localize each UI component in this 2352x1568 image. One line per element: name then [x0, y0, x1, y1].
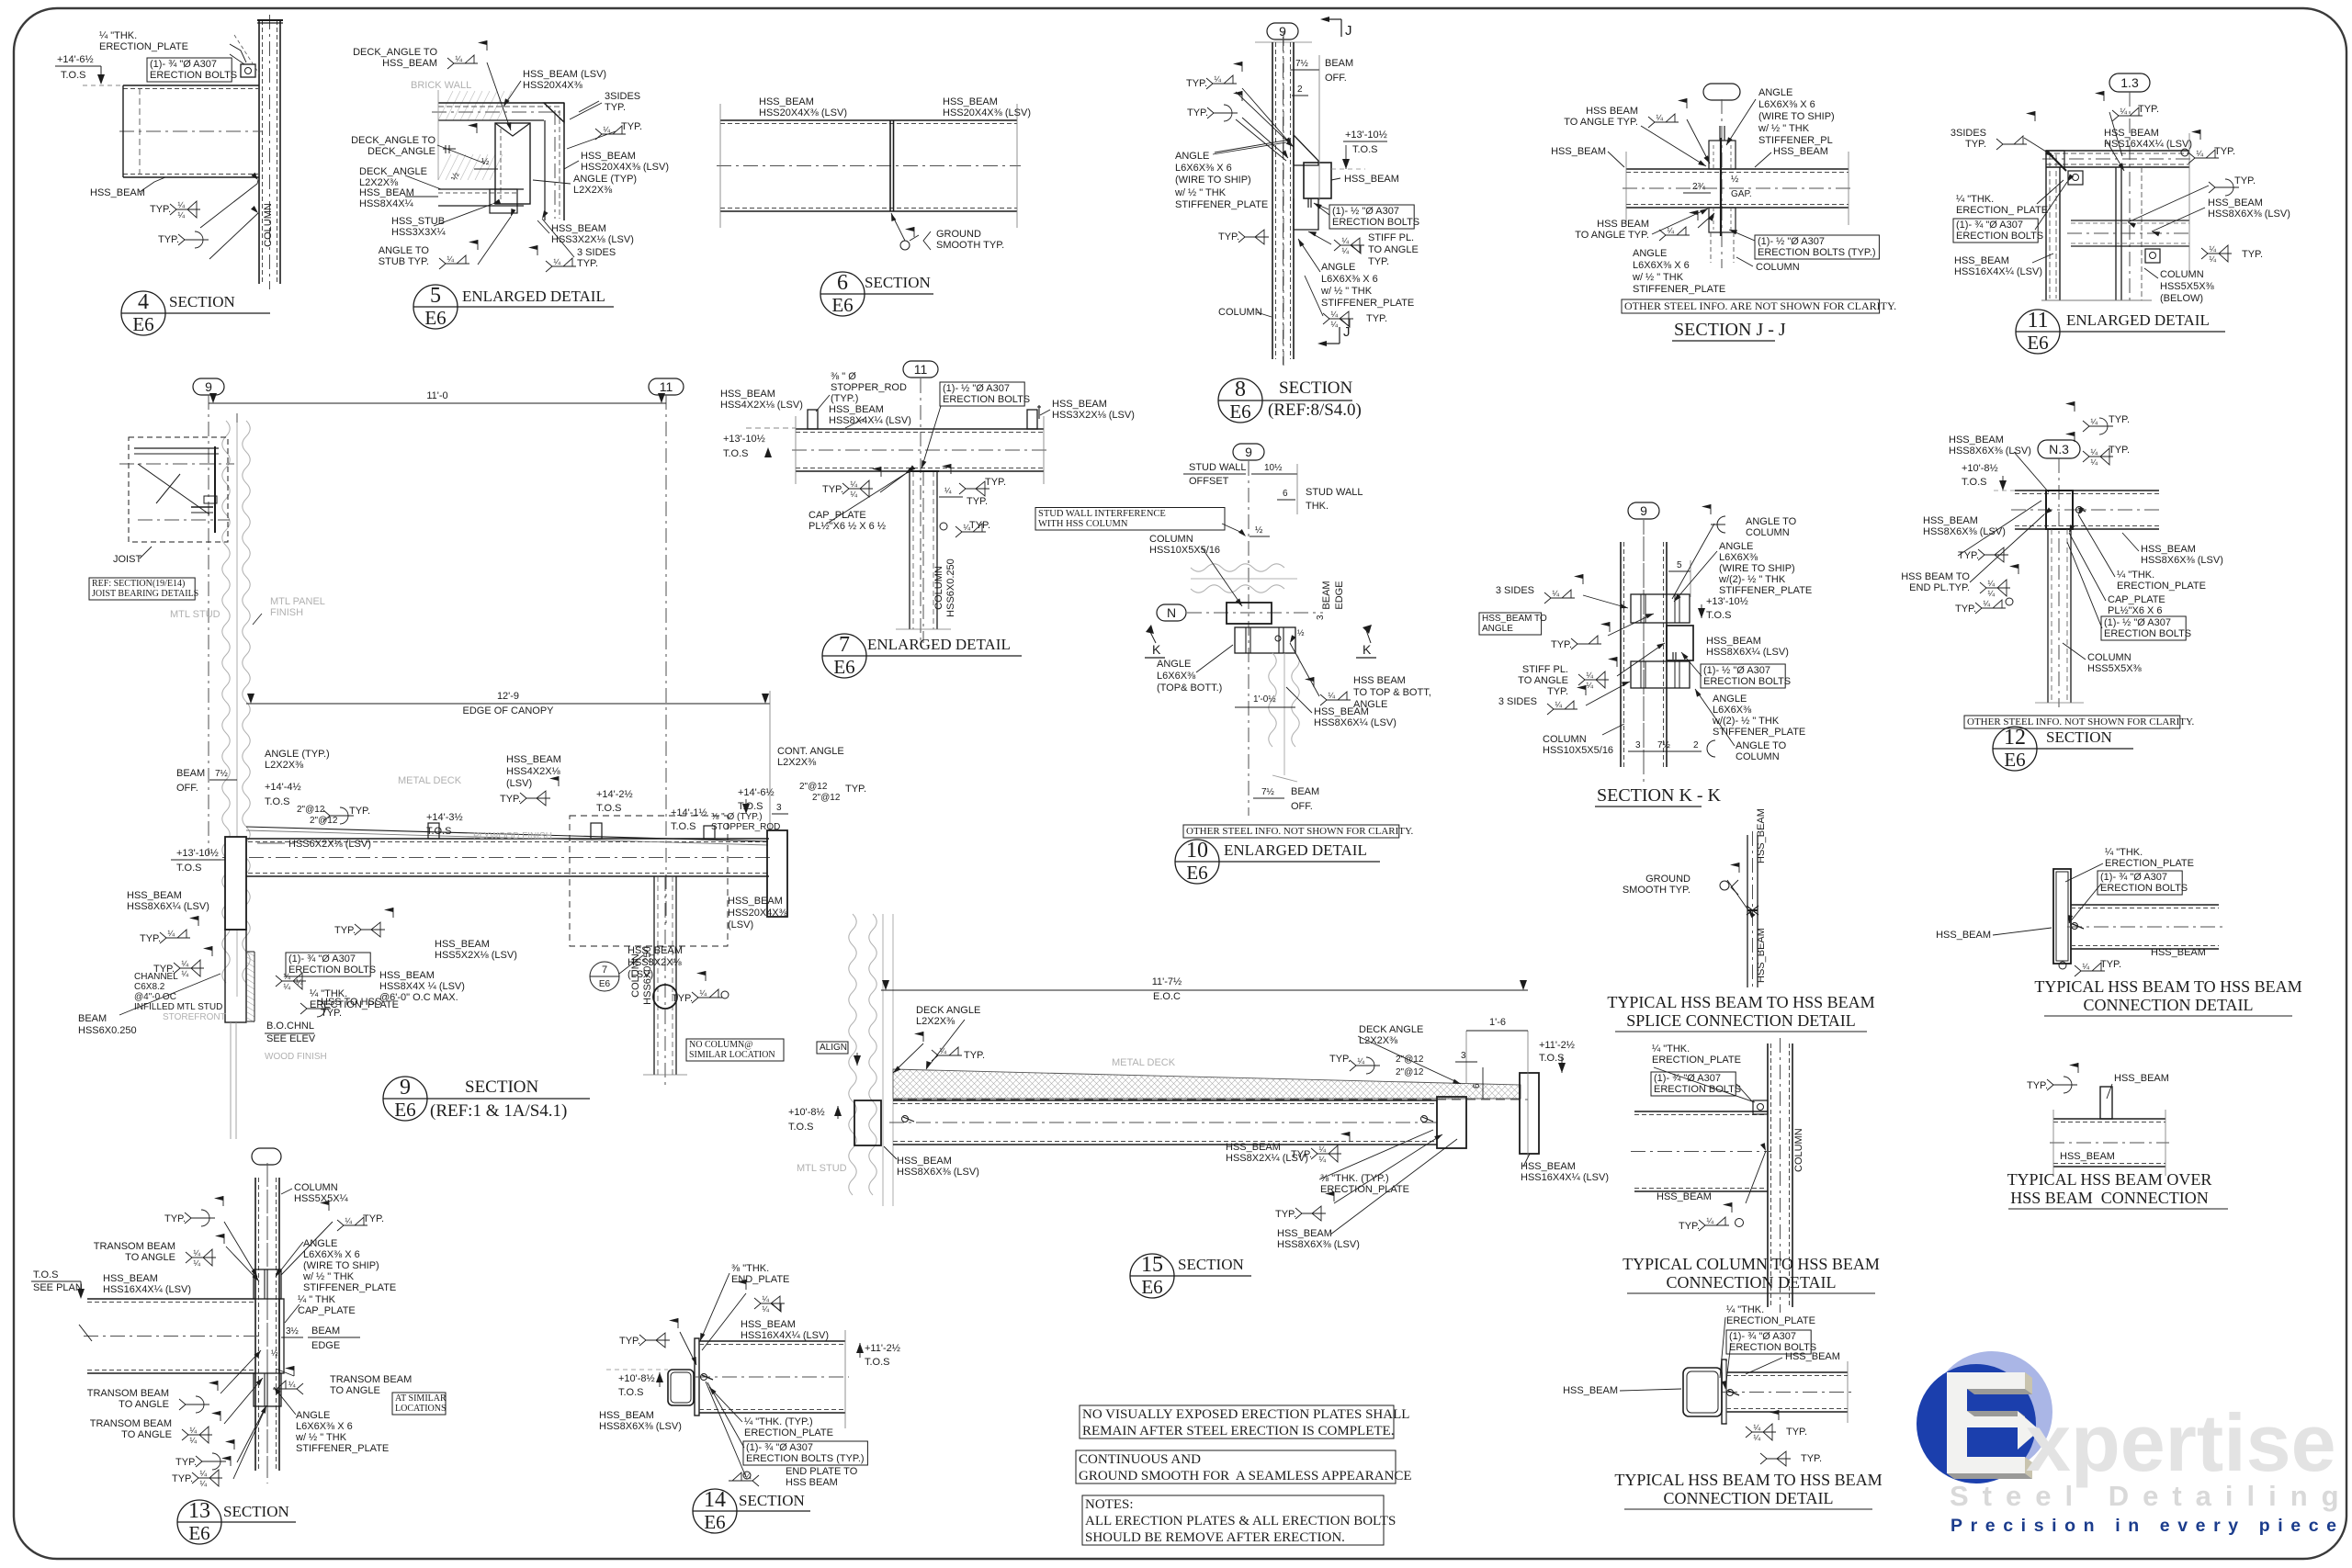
- svg-text:10½: 10½: [1264, 463, 1283, 473]
- svg-text:10: 10: [1186, 839, 1208, 863]
- svg-text:GROUND: GROUND: [936, 229, 981, 240]
- svg-text:DECK_ANGLE TO: DECK_ANGLE TO: [353, 47, 437, 58]
- svg-text:¼: ¼: [1330, 310, 1338, 319]
- svg-text:HSS8X4X¼: HSS8X4X¼: [359, 198, 414, 209]
- svg-text:HSS8X4X ¼ (LSV): HSS8X4X ¼ (LSV): [379, 981, 465, 992]
- svg-text:TYP.: TYP.: [363, 1213, 384, 1224]
- svg-text:¼: ¼: [1357, 1056, 1364, 1066]
- svg-text:HSS20X4X⅜ (LSV): HSS20X4X⅜ (LSV): [943, 107, 1031, 118]
- svg-text:TYP.: TYP.: [164, 1213, 186, 1224]
- enlarged detail 7/E6: [903, 361, 938, 378]
- svg-text:T.O.S: T.O.S: [61, 70, 86, 81]
- svg-text:BEAM: BEAM: [176, 768, 205, 779]
- svg-text:ANGLE: ANGLE: [1482, 624, 1513, 634]
- svg-text:9: 9: [400, 1076, 411, 1100]
- svg-text:+11'-2½: +11'-2½: [865, 1343, 900, 1354]
- svg-text:T.O.S: T.O.S: [671, 821, 696, 832]
- svg-text:6: 6: [1472, 1083, 1482, 1089]
- svg-text:HSS_BEAM: HSS_BEAM: [1226, 1142, 1281, 1153]
- svg-text:TYP.: TYP.: [2100, 959, 2121, 970]
- svg-text:STIFF PL.: STIFF PL.: [1368, 232, 1414, 243]
- svg-text:STOPPER_ROD: STOPPER_ROD: [711, 822, 780, 832]
- svg-text:⅜ " Ø (TYP.): ⅜ " Ø (TYP.): [711, 812, 763, 822]
- svg-text:¼: ¼: [762, 1304, 769, 1314]
- svg-text:TYP.: TYP.: [672, 993, 693, 1004]
- svg-text:¼: ¼: [283, 982, 290, 991]
- svg-text:HSS3X3X¼: HSS3X3X¼: [391, 227, 447, 238]
- typical hss beam over hss beam: [2100, 1087, 2112, 1119]
- svg-text:STIFFENER_PLATE: STIFFENER_PLATE: [1719, 585, 1812, 596]
- svg-text:GAP.: GAP.: [1731, 189, 1752, 199]
- svg-text:w/ ½ " THK: w/ ½ " THK: [302, 1271, 355, 1282]
- svg-text:HSS_BEAM: HSS_BEAM: [506, 754, 561, 765]
- svg-text:T.O.S: T.O.S: [176, 863, 202, 874]
- svg-text:HSS5X5X⅜: HSS5X5X⅜: [2160, 281, 2215, 292]
- svg-text:TRANSOM BEAM: TRANSOM BEAM: [330, 1374, 412, 1385]
- typical column to hss beam connection: [1767, 1043, 1769, 1307]
- svg-text:TYP.: TYP.: [334, 925, 356, 936]
- section 8/E6: column with angles: [1267, 23, 1298, 39]
- svg-text:2: 2: [1693, 740, 1699, 750]
- svg-text:TYP.: TYP.: [1958, 550, 1979, 561]
- svg-text:¼: ¼: [167, 929, 175, 938]
- svg-text:HSS5X5X⅜: HSS5X5X⅜: [2087, 663, 2143, 674]
- svg-text:L6X6X⅜: L6X6X⅜: [1719, 552, 1758, 563]
- svg-text:CONNECTION DETAIL: CONNECTION DETAIL: [2083, 996, 2253, 1014]
- svg-text:w/(2)- ½ " THK: w/(2)- ½ " THK: [1718, 574, 1786, 585]
- svg-text:TYP.: TYP.: [822, 484, 843, 495]
- svg-text:HSS_BEAM: HSS_BEAM: [103, 1273, 158, 1284]
- svg-text:COLUMN: COLUMN: [263, 203, 274, 247]
- svg-text:HSS_BEAM: HSS_BEAM: [581, 151, 636, 162]
- svg-text:METAL DECK: METAL DECK: [398, 775, 462, 786]
- svg-text:SECTION: SECTION: [465, 1077, 539, 1097]
- svg-text:+14'-3½: +14'-3½: [426, 812, 463, 823]
- section 9/E6 canopy: [193, 378, 224, 395]
- svg-text:HSS_BEAM: HSS_BEAM: [1936, 930, 1991, 941]
- svg-text:6: 6: [837, 271, 848, 295]
- svg-text:L2X2X⅜: L2X2X⅜: [1359, 1035, 1398, 1046]
- svg-text:(1)- ¾ "Ø A307: (1)- ¾ "Ø A307: [1729, 1331, 1796, 1342]
- svg-text:MTL PANEL: MTL PANEL: [270, 596, 325, 607]
- svg-text:COLUMN: COLUMN: [630, 953, 641, 998]
- svg-text:¼: ¼: [283, 972, 290, 981]
- svg-text:¼: ¼: [181, 969, 188, 978]
- svg-text:ANGLE: ANGLE: [1321, 262, 1355, 273]
- svg-text:w/ ½ " THK: w/ ½ " THK: [1758, 123, 1810, 134]
- svg-text:HSS4X2X⅛ (LSV): HSS4X2X⅛ (LSV): [720, 400, 803, 411]
- svg-text:OFF.: OFF.: [1291, 801, 1313, 812]
- svg-text:TYP.: TYP.: [1186, 78, 1207, 89]
- svg-text:TYP.: TYP.: [500, 794, 521, 805]
- svg-text:N: N: [1167, 605, 1176, 620]
- svg-text:(1)- ¾ "Ø A307: (1)- ¾ "Ø A307: [288, 953, 356, 964]
- svg-text:ANGLE: ANGLE: [1175, 151, 1209, 162]
- svg-text:HSS_BEAM: HSS_BEAM: [1949, 434, 2004, 446]
- svg-text:PL½"X6 X 6: PL½"X6 X 6: [2108, 605, 2163, 616]
- svg-text:2: 2: [1297, 85, 1303, 95]
- svg-text:(LSV): (LSV): [506, 778, 532, 789]
- svg-text:TO ANGLE TYP.: TO ANGLE TYP.: [1575, 230, 1649, 241]
- enlarged detail 10/E6: [1233, 444, 1264, 460]
- svg-text:¼: ¼: [762, 1294, 769, 1303]
- svg-text:COLUMN: COLUMN: [294, 1182, 338, 1193]
- svg-text:HSS3X2X⅛ (LSV): HSS3X2X⅛ (LSV): [551, 234, 634, 245]
- svg-text:K: K: [1363, 642, 1372, 657]
- svg-text:w/ ½ " THK: w/ ½ " THK: [295, 1432, 347, 1443]
- svg-text:¼: ¼: [553, 257, 560, 266]
- svg-text:TYPICAL HSS BEAM OVER: TYPICAL HSS BEAM OVER: [2007, 1170, 2212, 1189]
- svg-text:¼: ¼: [2209, 244, 2216, 254]
- svg-text:CAP_PLATE: CAP_PLATE: [2108, 594, 2165, 605]
- svg-text:HSS8X6X¼ (LSV): HSS8X6X¼ (LSV): [1314, 717, 1396, 728]
- svg-text:+13'-10½: +13'-10½: [1345, 130, 1387, 141]
- svg-text:¼: ¼: [1214, 74, 1221, 84]
- svg-text:¼: ¼: [2090, 447, 2098, 457]
- svg-text:SECTION: SECTION: [865, 274, 931, 291]
- svg-text:HSS_BEAM: HSS_BEAM: [1563, 1385, 1618, 1396]
- svg-text:TYP.: TYP.: [2214, 146, 2235, 157]
- svg-text:DECK ANGLE: DECK ANGLE: [916, 1005, 980, 1016]
- svg-text:TYP.: TYP.: [1187, 107, 1208, 118]
- svg-text:STUD WALL: STUD WALL: [1306, 487, 1363, 498]
- svg-text:HSS20X4X⅜ (LSV): HSS20X4X⅜ (LSV): [759, 107, 847, 118]
- svg-text:¼: ¼: [1706, 1216, 1713, 1225]
- svg-text:TYP.: TYP.: [2109, 445, 2130, 456]
- svg-text:HSS_BEAM: HSS_BEAM: [1785, 1351, 1840, 1362]
- svg-text:THK.: THK.: [1306, 501, 1329, 512]
- svg-text:3: 3: [1461, 1051, 1466, 1061]
- svg-text:HSS_BEAM: HSS_BEAM: [1314, 706, 1369, 717]
- svg-text:SMOOTH TYP.: SMOOTH TYP.: [936, 240, 1004, 251]
- section J-J: [1703, 84, 1740, 100]
- svg-text:(1)- ¾ "Ø A307: (1)- ¾ "Ø A307: [2100, 872, 2167, 883]
- svg-text:ERECTION BOLTS: ERECTION BOLTS: [1703, 676, 1791, 687]
- svg-text:HSS16X4X¼ (LSV): HSS16X4X¼ (LSV): [1954, 266, 2042, 277]
- svg-text:HSS20X4X⅜: HSS20X4X⅜: [523, 80, 583, 91]
- svg-text:HSS_BEAM TO: HSS_BEAM TO: [1482, 614, 1547, 624]
- svg-text:5: 5: [1677, 560, 1682, 570]
- svg-text:(1)- ½ "Ø A307: (1)- ½ "Ø A307: [1332, 206, 1399, 217]
- svg-text:½: ½: [1297, 628, 1305, 637]
- svg-text:TRANSOM BEAM: TRANSOM BEAM: [90, 1418, 172, 1429]
- svg-text:T.O.S: T.O.S: [33, 1269, 59, 1280]
- svg-text:TYP.: TYP.: [1801, 1453, 1822, 1464]
- svg-text:TYP.: TYP.: [158, 234, 179, 245]
- svg-text:COLUMN: COLUMN: [1543, 734, 1587, 745]
- svg-text:L6X6X⅜ X 6: L6X6X⅜ X 6: [1758, 99, 1815, 110]
- svg-text:ERECTION_PLATE: ERECTION_PLATE: [99, 41, 188, 52]
- svg-text:COLUMN: COLUMN: [1218, 307, 1262, 318]
- svg-text:HSS20X4X⅜ (LSV): HSS20X4X⅜ (LSV): [581, 162, 669, 173]
- svg-text:¼: ¼: [603, 125, 610, 134]
- svg-text:TYP.: TYP.: [2138, 104, 2159, 115]
- svg-text:TYP.: TYP.: [619, 1336, 640, 1347]
- svg-text:ENLARGED DETAIL: ENLARGED DETAIL: [462, 288, 605, 305]
- svg-text:N.3: N.3: [2049, 442, 2069, 457]
- svg-text:HSS16X4X¼ (LSV): HSS16X4X¼ (LSV): [2104, 139, 2192, 150]
- svg-text:(REF:1 & 1A/S4.1): (REF:1 & 1A/S4.1): [430, 1101, 567, 1121]
- svg-text:COLUMN: COLUMN: [2160, 269, 2204, 280]
- svg-text:TYP.: TYP.: [1291, 1149, 1312, 1160]
- svg-text:BEAM: BEAM: [78, 1013, 107, 1024]
- svg-text:ERECTION BOLTS: ERECTION BOLTS: [150, 70, 237, 81]
- svg-text:GROUND: GROUND: [1645, 874, 1690, 885]
- svg-text:ERECTION BOLTS: ERECTION BOLTS: [2104, 628, 2191, 639]
- svg-text:+13'-10½: +13'-10½: [176, 848, 219, 859]
- svg-text:METAL DECK: METAL DECK: [1112, 1057, 1176, 1068]
- svg-text:SECTION: SECTION: [1178, 1256, 1244, 1273]
- svg-text:ANGLE: ANGLE: [1758, 87, 1792, 98]
- svg-text:HSS_BEAM: HSS_BEAM: [728, 896, 783, 907]
- svg-text:TO ANGLE: TO ANGLE: [1518, 675, 1568, 686]
- svg-text:BEAM: BEAM: [1291, 786, 1319, 797]
- svg-text:E6: E6: [2027, 332, 2048, 354]
- svg-text:¼ "THK.: ¼ "THK.: [1956, 194, 1994, 205]
- svg-text:HSS8X6X⅜ (LSV): HSS8X6X⅜ (LSV): [1923, 526, 2006, 537]
- svg-text:1'-6: 1'-6: [1489, 1017, 1506, 1028]
- svg-text:+13'-10½: +13'-10½: [723, 434, 765, 445]
- svg-text:COLUMN: COLUMN: [2087, 652, 2131, 663]
- svg-text:COLUMN: COLUMN: [1793, 1128, 1804, 1172]
- svg-text:NO COLUMN@: NO COLUMN@: [689, 1040, 753, 1050]
- svg-text:OTHER STEEL INFO. ARE NOT SHOW: OTHER STEEL INFO. ARE NOT SHOWN FOR CLAR…: [1624, 299, 1896, 312]
- svg-text:PLYWOOD FINISH: PLYWOOD FINISH: [473, 831, 552, 841]
- svg-text:(BELOW): (BELOW): [2160, 293, 2203, 304]
- svg-text:TYP.: TYP.: [1329, 1054, 1351, 1065]
- svg-text:MTL STUD: MTL STUD: [170, 609, 220, 620]
- svg-text:HSS BEAM CONNECTION: HSS BEAM CONNECTION: [2010, 1189, 2209, 1207]
- svg-text:HSS_BEAM: HSS_BEAM: [127, 890, 182, 901]
- svg-text:NOTES:: NOTES:: [1085, 1497, 1134, 1512]
- svg-text:OFF.: OFF.: [176, 783, 198, 794]
- svg-text:8: 8: [1235, 378, 1246, 401]
- svg-text:¼: ¼: [1753, 1433, 1760, 1442]
- svg-text:¼: ¼: [1341, 246, 1349, 255]
- svg-text:11: 11: [660, 379, 673, 394]
- svg-text:TYP.: TYP.: [1955, 604, 1976, 615]
- svg-text:(LSV): (LSV): [728, 919, 753, 931]
- svg-text:STIFFENER_PLATE: STIFFENER_PLATE: [1633, 284, 1725, 295]
- svg-text:3 SIDES: 3 SIDES: [1496, 585, 1534, 596]
- svg-text:2"@12: 2"@12: [812, 793, 841, 803]
- svg-text:3 SIDES: 3 SIDES: [577, 247, 616, 258]
- enlarged detail 11/E6: [2109, 73, 2150, 92]
- svg-text:@4"-0 OC: @4"-0 OC: [134, 992, 176, 1002]
- svg-text:TYP.: TYP.: [140, 933, 161, 944]
- svg-text:T.O.S: T.O.S: [723, 448, 749, 459]
- typical splice detail: [1747, 835, 1748, 987]
- svg-text:7½: 7½: [1295, 59, 1309, 69]
- svg-text:¼: ¼: [189, 1436, 197, 1445]
- svg-text:ERECTION BOLTS: ERECTION BOLTS: [943, 394, 1030, 405]
- svg-text:(TYP.): (TYP.): [831, 393, 858, 404]
- svg-text:HSS_BEAM: HSS_BEAM: [2151, 947, 2206, 958]
- svg-text:OFFSET: OFFSET: [1189, 476, 1229, 487]
- svg-text:HSS_BEAM: HSS_BEAM: [2104, 128, 2159, 139]
- svg-text:E6: E6: [1229, 400, 1250, 423]
- svg-text:ERECTION_ PLATE: ERECTION_ PLATE: [1956, 205, 2048, 216]
- svg-text:OFF.: OFF.: [1325, 73, 1347, 84]
- svg-text:B.O.CHNL: B.O.CHNL: [266, 1021, 314, 1032]
- svg-text:Precision in every piece: Precision in every piece: [1951, 1516, 2345, 1536]
- svg-text:TYPICAL COLUMN TO HSS BEAM: TYPICAL COLUMN TO HSS BEAM: [1623, 1255, 1880, 1273]
- svg-text:OTHER STEEL INFO. NOT SHOWN FO: OTHER STEEL INFO. NOT SHOWN FOR CLARITY.: [1186, 826, 1414, 837]
- svg-text:HSS_BEAM: HSS_BEAM: [2141, 544, 2196, 555]
- svg-text:SIMILAR LOCATION: SIMILAR LOCATION: [689, 1050, 775, 1060]
- svg-text:END PL.TYP.: END PL.TYP.: [1909, 582, 1970, 593]
- svg-text:T.O.S: T.O.S: [426, 826, 452, 837]
- svg-text:HSS BEAM: HSS BEAM: [1597, 219, 1649, 230]
- svg-text:(WIRE TO SHIP): (WIRE TO SHIP): [303, 1260, 379, 1271]
- svg-text:9: 9: [1640, 503, 1647, 518]
- svg-text:¼: ¼: [2209, 254, 2216, 264]
- svg-text:(1)- ½ "Ø A307: (1)- ½ "Ø A307: [1758, 236, 1825, 247]
- svg-text:TYPICAL HSS BEAM TO HSS BEAM: TYPICAL HSS BEAM TO HSS BEAM: [1607, 993, 1874, 1011]
- svg-text:E.O.C: E.O.C: [1153, 991, 1181, 1002]
- svg-text:E6: E6: [599, 979, 611, 989]
- svg-text:(1)- ¾ "Ø A307: (1)- ¾ "Ø A307: [150, 59, 217, 70]
- svg-text:ANGLE: ANGLE: [1633, 248, 1667, 259]
- svg-text:¼: ¼: [455, 54, 462, 63]
- svg-text:¼ "THK.: ¼ "THK.: [99, 30, 137, 41]
- svg-text:HSS8X6X⅜ (LSV): HSS8X6X⅜ (LSV): [2141, 555, 2223, 566]
- svg-text:9: 9: [1279, 24, 1286, 39]
- svg-text:+14'-6½: +14'-6½: [738, 787, 775, 798]
- svg-text:¼: ¼: [1987, 579, 1995, 588]
- svg-text:TYP.: TYP.: [2109, 414, 2130, 425]
- svg-text:SECTION: SECTION: [2046, 728, 2112, 746]
- svg-text:(1)- ¾ "Ø A307: (1)- ¾ "Ø A307: [746, 1442, 813, 1453]
- svg-text:½: ½: [1731, 175, 1739, 185]
- section 12/E6: [2038, 440, 2080, 458]
- svg-text:7½: 7½: [1657, 740, 1671, 750]
- svg-text:T.O.S: T.O.S: [265, 796, 290, 807]
- svg-text:HSS_BEAM: HSS_BEAM: [1756, 928, 1767, 983]
- svg-text:¼: ¼: [2082, 962, 2089, 971]
- svg-text:HSS_BEAM: HSS_BEAM: [379, 970, 435, 981]
- svg-text:DECK ANGLE: DECK ANGLE: [1359, 1024, 1423, 1035]
- svg-text:HSS_BEAM: HSS_BEAM: [2060, 1151, 2115, 1162]
- svg-text:CONT. ANGLE: CONT. ANGLE: [777, 746, 844, 757]
- svg-text:AT SIMILAR: AT SIMILAR: [395, 1393, 447, 1404]
- svg-text:T.O.S: T.O.S: [618, 1387, 644, 1398]
- svg-text:ANGLE: ANGLE: [1157, 659, 1191, 670]
- svg-text:¼: ¼: [199, 1469, 207, 1478]
- svg-text:REMAIN AFTER STEEL ERECTION IS: REMAIN AFTER STEEL ERECTION IS COMPLETE.: [1082, 1424, 1394, 1438]
- svg-text:BEAM: BEAM: [1321, 581, 1332, 609]
- section 4/E6: HSS beam to column: [258, 20, 260, 284]
- svg-text:HSS8X6X⅜ (LSV): HSS8X6X⅜ (LSV): [2208, 209, 2290, 220]
- svg-text:STIFFENER_PL: STIFFENER_PL: [1758, 135, 1833, 146]
- svg-text:HSS_BEAM: HSS_BEAM: [1773, 146, 1828, 157]
- svg-text:STIFFENER_PLATE: STIFFENER_PLATE: [1321, 298, 1414, 309]
- svg-text:2"@12: 2"@12: [1396, 1067, 1424, 1077]
- svg-text:4: 4: [138, 290, 149, 314]
- svg-text:TYP.: TYP.: [2242, 249, 2263, 260]
- svg-text:ANGLE: ANGLE: [1713, 694, 1747, 705]
- svg-text:w/ ½ " THK: w/ ½ " THK: [1320, 286, 1373, 297]
- svg-text:HSS BEAM: HSS BEAM: [1586, 106, 1638, 117]
- svg-text:¼: ¼: [1330, 320, 1338, 329]
- svg-text:SECTION: SECTION: [1279, 378, 1353, 398]
- svg-text:+14'-6½: +14'-6½: [57, 54, 94, 65]
- svg-text:CAP_PLATE: CAP_PLATE: [298, 1305, 356, 1316]
- svg-text:TYP.: TYP.: [175, 1457, 197, 1468]
- svg-text:HSS_BEAM: HSS_BEAM: [551, 223, 606, 234]
- svg-text:TYP.: TYP.: [577, 258, 598, 269]
- svg-text:STOREFRONT: STOREFRONT: [163, 1012, 226, 1022]
- svg-text:(1)- ¾ "Ø A307: (1)- ¾ "Ø A307: [1956, 220, 2023, 231]
- svg-text:E6: E6: [1141, 1276, 1162, 1298]
- svg-text:ENLARGED DETAIL: ENLARGED DETAIL: [1224, 841, 1367, 859]
- svg-text:(1)- ½ "Ø A307: (1)- ½ "Ø A307: [943, 383, 1010, 394]
- svg-text:HSS_BEAM: HSS_BEAM: [1344, 174, 1399, 185]
- svg-text:¼: ¼: [181, 959, 188, 968]
- svg-text:¼: ¼: [1586, 681, 1593, 690]
- svg-text:COLUMN: COLUMN: [1756, 262, 1800, 273]
- svg-text:STIFF PL.: STIFF PL.: [1522, 664, 1568, 675]
- svg-text:SHOULD BE REMOVE AFTER ERECTIO: SHOULD BE REMOVE AFTER ERECTION.: [1085, 1530, 1345, 1545]
- svg-text:@6'-0" O.C MAX.: @6'-0" O.C MAX.: [379, 992, 458, 1003]
- svg-text:L6X6X⅜: L6X6X⅜: [1157, 671, 1196, 682]
- svg-text:HSS_BEAM: HSS_BEAM: [943, 96, 998, 107]
- svg-text:¼: ¼: [288, 1380, 296, 1389]
- svg-text:T.O.S: T.O.S: [738, 801, 763, 812]
- svg-text:ANGLE TO: ANGLE TO: [1746, 516, 1797, 527]
- svg-text:¼: ¼: [1555, 700, 1562, 709]
- svg-text:HSS_BEAM: HSS_BEAM: [2114, 1073, 2169, 1084]
- svg-text:ERECTION_PLATE: ERECTION_PLATE: [2105, 858, 2194, 869]
- svg-text:HSS_BEAM: HSS_BEAM: [1551, 146, 1606, 157]
- svg-text:3 SIDES: 3 SIDES: [1498, 696, 1537, 707]
- svg-text:HSS20X4X⅜: HSS20X4X⅜: [728, 908, 788, 919]
- section 13/E6 transom: [252, 1148, 281, 1165]
- svg-text:HSS6X0.250: HSS6X0.250: [78, 1025, 137, 1036]
- svg-text:¼ "THK.: ¼ "THK.: [2117, 570, 2154, 581]
- svg-text:TO ANGLE TYP.: TO ANGLE TYP.: [1564, 117, 1638, 128]
- svg-text:SMOOTH TYP.: SMOOTH TYP.: [1623, 885, 1690, 896]
- svg-text:1.3: 1.3: [2120, 75, 2139, 90]
- svg-text:SEE ELEV: SEE ELEV: [266, 1033, 316, 1044]
- svg-text:COLUMN: COLUMN: [1736, 751, 1780, 762]
- svg-text:¼: ¼: [699, 988, 707, 998]
- svg-text:2"@12: 2"@12: [799, 782, 828, 792]
- svg-text:SECTION J - J: SECTION J - J: [1674, 320, 1786, 340]
- svg-text:T.O.S: T.O.S: [1706, 610, 1732, 621]
- svg-text:¼ " THK: ¼ " THK: [298, 1294, 336, 1305]
- svg-text:11'-0: 11'-0: [426, 390, 447, 401]
- svg-text:TO ANGLE: TO ANGLE: [121, 1429, 172, 1440]
- svg-text:E6: E6: [132, 313, 153, 335]
- svg-text:¼: ¼: [1753, 1423, 1760, 1432]
- svg-text:ANGLE: ANGLE: [1719, 541, 1753, 552]
- svg-text:JOIST: JOIST: [113, 554, 141, 565]
- svg-text:14: 14: [704, 1488, 726, 1512]
- svg-text:(WIRE TO SHIP): (WIRE TO SHIP): [1175, 175, 1251, 186]
- svg-text:TYP.: TYP.: [621, 121, 642, 132]
- svg-text:15: 15: [1141, 1253, 1163, 1277]
- svg-text:¼: ¼: [189, 1426, 197, 1435]
- svg-text:T.O.S: T.O.S: [1962, 477, 1987, 488]
- svg-text:¼: ¼: [944, 486, 952, 495]
- svg-text:T.O.S: T.O.S: [788, 1122, 814, 1133]
- svg-text:SECTION K - K: SECTION K - K: [1597, 785, 1722, 806]
- svg-text:ERECTION BOLTS: ERECTION BOLTS: [2100, 883, 2188, 894]
- section 15/E6 long beam: [849, 914, 856, 1195]
- svg-text:TYP.: TYP.: [1786, 1427, 1807, 1438]
- svg-text:TYP.: TYP.: [2234, 175, 2256, 186]
